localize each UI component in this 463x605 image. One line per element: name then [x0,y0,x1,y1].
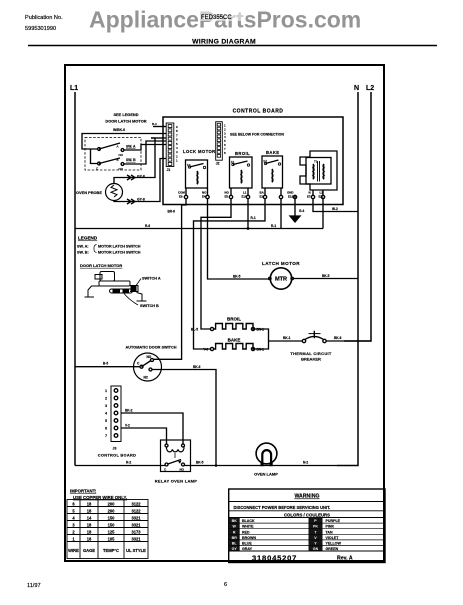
svg-text:N-2: N-2 [303,461,308,465]
svg-text:3173: 3173 [131,529,141,534]
svg-text:SW. B: SW. B [126,158,136,162]
svg-text:COLORS / COULEURS: COLORS / COULEURS [284,512,330,517]
svg-text:UL STYLE: UL STYLE [126,548,146,553]
BOTTOM [75,386,337,484]
svg-text:MOTOR LATCH SWITCH: MOTOR LATCH SWITCH [98,245,141,249]
svg-text:Y-6: Y-6 [203,348,208,352]
svg-text:WARNING: WARNING [294,494,319,500]
svg-text:L1: L1 [70,85,78,92]
svg-text:PURPLE: PURPLE [326,519,341,523]
model number FED355CC [198,10,246,21]
wire L2 vertical bus (turns left to thermal breaker) [344,92,371,341]
svg-text:E9: E9 [179,195,183,199]
svg-text:B-5: B-5 [103,362,108,366]
wire BK-5 relay NO to oven lamp [185,465,338,467]
svg-text:N: N [354,85,359,92]
svg-text:PINK: PINK [326,525,335,529]
svg-text:TEMP°C: TEMP°C [103,548,119,553]
svg-text:BK-5: BK-5 [196,461,204,465]
svg-text:GY-8: GY-8 [137,198,145,202]
svg-text:NC: NC [144,376,149,380]
svg-text:BAKE: BAKE [228,338,241,343]
svg-text:5995301990: 5995301990 [25,26,56,32]
wire oven probe bottom GY-8 to J1 pin 9 [114,159,166,202]
connector J2 [216,122,226,166]
svg-text:GRAY: GRAY [242,547,253,551]
switch SW B [96,158,136,171]
svg-text:CONTROL BOARD: CONTROL BOARD [233,109,284,115]
svg-text:SWITCH A: SWITCH A [142,277,161,281]
svg-text:BK-1: BK-1 [283,336,291,340]
svg-text:11/97: 11/97 [27,583,41,589]
terminal COM E9 [185,188,187,195]
svg-text:PK: PK [313,525,318,529]
terminal bake NO [280,188,282,195]
svg-text:RELAY OVEN LAMP: RELAY OVEN LAMP [155,479,198,484]
svg-text:BROWN: BROWN [242,536,256,540]
svg-text:3321: 3321 [131,515,141,520]
wire stub J1 pin 1 [153,126,166,128]
svg-text:E7: E7 [307,195,311,199]
svg-text:NO: NO [180,468,185,472]
wire R-1 bake relay drop [280,199,282,229]
svg-text:DISCONNECT POWER BEFORE SERVIC: DISCONNECT POWER BEFORE SERVICING UNIT. [234,505,331,510]
svg-text:BK-6: BK-6 [334,336,342,340]
svg-text:18: 18 [87,522,92,527]
terminal NO E4 [207,188,209,195]
svg-text:16: 16 [87,536,92,541]
svg-text:E1: E1 [260,195,264,199]
svg-text:MOTOR LATCH SWITCH: MOTOR LATCH SWITCH [98,251,141,255]
wire BK-6 breaker to L2 [326,340,371,342]
wire L1 vertical bus [74,92,76,466]
svg-text:TAN: TAN [326,530,334,534]
MIDWIRES [75,199,358,360]
svg-text:GY: GY [232,547,238,551]
svg-text:A: A [117,145,119,149]
svg-text:FED355CC: FED355CC [201,15,232,21]
terminal GND E12 [294,195,296,198]
junction dot R-1/R-6 [247,227,250,230]
legend brace [94,245,97,253]
svg-text:RED: RED [242,530,250,534]
svg-text:Publication No.: Publication No. [25,15,63,21]
ground symbol G-4 [294,199,296,216]
svg-text:SW. A:: SW. A: [77,245,89,249]
svg-text:105: 105 [108,536,116,541]
svg-text:USE COPPER WIRE ONLY.: USE COPPER WIRE ONLY. [73,495,127,500]
wire V-2 J3 pin6 to relay [122,428,167,444]
svg-text:W-2: W-2 [332,207,338,211]
wire stub J1 pin 3 [151,137,166,139]
wire R-6 L1 feed bus [75,228,323,230]
svg-text:6: 6 [224,582,227,588]
wire Y-6 bake relay to bake element [194,199,266,349]
svg-text:MTR: MTR [275,277,287,283]
header rule [28,45,437,47]
svg-text:THERMAL CIRCUIT: THERMAL CIRCUIT [290,351,332,356]
svg-text:E12: E12 [288,195,294,199]
dashed enclosure door latch switches [85,138,141,171]
svg-text:GY-8: GY-8 [137,175,145,179]
wire SW A NO to J1 pin 5 [124,145,166,151]
control board U1 box [163,117,343,205]
svg-text:18: 18 [87,508,92,513]
wire L1 E11 drop [322,199,324,229]
svg-text:E4: E4 [202,195,206,199]
svg-text:3321: 3321 [131,536,141,541]
svg-text:NO: NO [147,355,152,359]
svg-text:WIRING DIAGRAM: WIRING DIAGRAM [192,39,256,46]
svg-text:150: 150 [108,515,116,520]
svg-text:CONTROL BOARD: CONTROL BOARD [98,453,136,458]
wire BR-6 lock COM to door switch NO [154,199,187,360]
wire W/BK-6 to J1 pin 2 [82,134,166,150]
oven probe circle [106,184,123,201]
terminal BA E1 [264,188,266,195]
svg-text:Rev. A: Rev. A [337,556,353,562]
svg-text:2: 2 [105,397,107,401]
thermal circuit breaker CB1 [302,331,326,343]
wire elements to breaker [255,329,269,349]
svg-text:BROIL: BROIL [235,151,250,156]
svg-text:200: 200 [108,508,116,513]
diagram outer border frame [65,65,384,561]
svg-text:VIOLET: VIOLET [326,536,340,540]
svg-text:W: W [232,525,236,529]
svg-text:OVEN LAMP: OVEN LAMP [254,472,278,477]
wire N vertical bus (turns left at bottom to oven lamp) [337,92,358,466]
svg-text:SWITCH B: SWITCH B [140,304,159,308]
wire B-5 L1 to door switch common [75,366,140,368]
terminal L1 E11 [322,190,324,195]
svg-text:6: 6 [105,427,107,431]
svg-text:1: 1 [105,389,107,393]
TOPLEFT [76,112,166,204]
svg-text:AUTOMATIC DOOR SWITCH: AUTOMATIC DOOR SWITCH [126,346,177,350]
svg-text:BK-5: BK-5 [233,275,241,279]
svg-text:WHITE: WHITE [242,525,254,529]
relay lock motor K3 [183,149,216,188]
svg-text:R-2: R-2 [126,461,131,465]
svg-text:3122: 3122 [131,501,141,506]
svg-text:3: 3 [105,404,107,408]
svg-text:LEGEND: LEGEND [78,236,98,241]
svg-text:J3: J3 [113,447,117,451]
svg-text:LATCH MOTOR: LATCH MOTOR [262,261,300,266]
svg-text:BLACK: BLACK [242,519,255,523]
svg-text:BR-6: BR-6 [168,210,176,214]
relay oven lamp K4 [161,440,191,472]
svg-text:125: 125 [108,529,116,534]
terminal NO E5 [230,188,232,195]
warning box [229,489,385,563]
LEGEND [77,236,161,309]
svg-text:DOOR LATCH MOTOR: DOOR LATCH MOTOR [105,119,146,124]
svg-text:E10: E10 [242,195,248,199]
svg-text:18: 18 [87,501,92,506]
svg-text:L2: L2 [366,85,374,92]
svg-text:NO: NO [119,153,124,157]
svg-text:BK-6: BK-6 [193,365,201,369]
svg-text:BL-5: BL-5 [191,328,198,332]
wire BK-5 lock NO to latch motor [208,199,270,279]
svg-text:J2: J2 [216,162,220,166]
wire BK-2 J3 pin4 to relay [122,413,184,444]
door latch motor mechanical drawing [85,272,147,306]
svg-text:WIRE: WIRE [68,548,79,553]
svg-text:V-2: V-2 [125,424,130,428]
svg-text:BK-5: BK-5 [322,274,330,278]
svg-text:SW. B:: SW. B: [77,251,89,255]
wire linking switch commons [91,149,98,164]
wire R-2 L1 to relay common [75,465,165,467]
svg-text:BLUE: BLUE [242,542,252,546]
connector arrows GY-8 top [127,175,135,180]
svg-text:YELLOW: YELLOW [326,542,342,546]
svg-text:IMPORTANT:: IMPORTANT: [70,489,97,494]
wire SW B NO to J1 pin 4 [124,141,166,164]
svg-text:E5: E5 [225,195,229,199]
svg-text:R-1: R-1 [271,224,276,228]
svg-text:318045207: 318045207 [252,554,297,563]
svg-text:LOCK MOTOR: LOCK MOTOR [183,149,216,154]
MIDRIGHT [191,261,371,362]
connector arrows GY-8 bottom [127,199,135,204]
switch SW A [98,143,136,157]
svg-text:DOOR LATCH MOTOR: DOOR LATCH MOTOR [80,263,122,268]
wire BK-5 latch motor to N [293,278,358,280]
svg-text:G-4: G-4 [299,209,305,213]
wire BL-5 broil relay to broil element [201,199,231,329]
TABLES [67,489,385,563]
svg-text:BR: BR [232,536,238,540]
svg-text:3321: 3321 [131,522,141,527]
terminal L1 E10 [247,188,249,195]
connector J3 [98,386,136,458]
svg-text:GAGE: GAGE [83,548,95,553]
svg-text:BREAKER: BREAKER [301,357,321,362]
colour legend rows [229,518,385,552]
svg-text:BL: BL [232,542,238,546]
svg-text:J1: J1 [167,168,171,172]
transformer T1 [300,151,337,190]
svg-text:SEE LEGEND: SEE LEGEND [113,112,138,117]
svg-text:GN: GN [313,547,319,551]
CONTROLBOARD [163,109,343,205]
svg-text:E11: E11 [319,195,324,199]
svg-text:BAKE: BAKE [266,150,279,155]
oven lamp DS1 [256,443,277,466]
svg-text:18: 18 [87,529,92,534]
relay broil K1 [230,151,253,188]
svg-text:BROIL: BROIL [227,317,241,322]
svg-text:W/BK-6: W/BK-6 [113,128,125,132]
svg-text:BK-2: BK-2 [125,409,133,413]
connector J1 [166,123,178,172]
DOORSWITCH [75,346,216,466]
svg-text:GREEN: GREEN [326,547,339,551]
wire oven probe top GY-8 to J1 pin 3 [114,138,155,184]
svg-text:4: 4 [105,412,107,416]
wire gauge table [67,500,148,559]
svg-text:NO: NO [119,167,124,171]
svg-text:B-3: B-3 [152,122,157,126]
svg-text:150: 150 [108,522,116,527]
svg-text:OVEN PROBE: OVEN PROBE [76,190,102,195]
svg-text:SW. A: SW. A [126,145,136,149]
junction dot BK-6/BK-5 [215,464,218,467]
svg-text:200: 200 [108,501,116,506]
relay bake K2 [262,150,283,188]
wire R-1 broil relay drop [247,199,249,229]
wire BK-6 door switch NC to lamp circuit [152,370,216,466]
svg-text:3122: 3122 [131,508,141,513]
svg-text:R-6: R-6 [145,224,150,228]
svg-text:7: 7 [105,434,107,438]
leader to switch B [124,294,138,306]
terminal N E7 [312,190,314,195]
svg-text:R-1: R-1 [251,216,256,220]
svg-text:SEE BELOW FOR CONNECTION: SEE BELOW FOR CONNECTION [230,133,284,137]
wire W-2 board neutral to N bus [313,199,358,212]
leader to switch A [135,279,141,288]
svg-text:B: B [117,158,119,162]
svg-text:R: R [233,530,236,534]
svg-text:5: 5 [105,419,107,423]
svg-text:14: 14 [87,515,92,520]
svg-text:BK: BK [232,519,238,523]
